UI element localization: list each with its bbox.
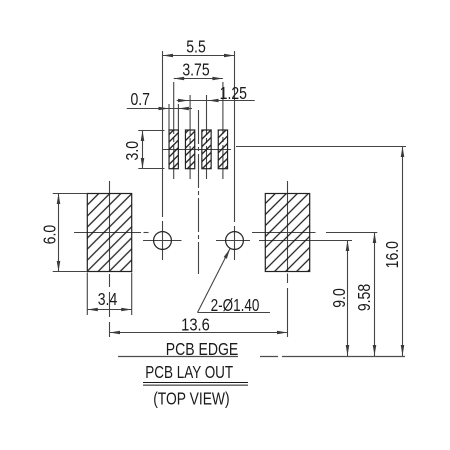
svg-text:PCB EDGE: PCB EDGE [166,339,239,359]
svg-text:PCB LAY OUT: PCB LAY OUT [145,363,233,382]
svg-text:9.58: 9.58 [354,284,374,311]
svg-text:9.0: 9.0 [329,288,349,308]
svg-text:3.0: 3.0 [122,141,142,161]
svg-text:2-Ø1.40: 2-Ø1.40 [211,296,260,315]
svg-text:1.25: 1.25 [220,83,247,103]
svg-text:6.0: 6.0 [40,225,60,245]
svg-text:5.5: 5.5 [186,37,206,57]
svg-text:16.0: 16.0 [382,241,402,268]
svg-text:0.7: 0.7 [130,90,150,110]
svg-text:3.4: 3.4 [98,289,118,309]
svg-text:3.75: 3.75 [182,60,209,80]
svg-text:(TOP VIEW): (TOP VIEW) [153,389,229,409]
svg-text:13.6: 13.6 [181,315,210,335]
